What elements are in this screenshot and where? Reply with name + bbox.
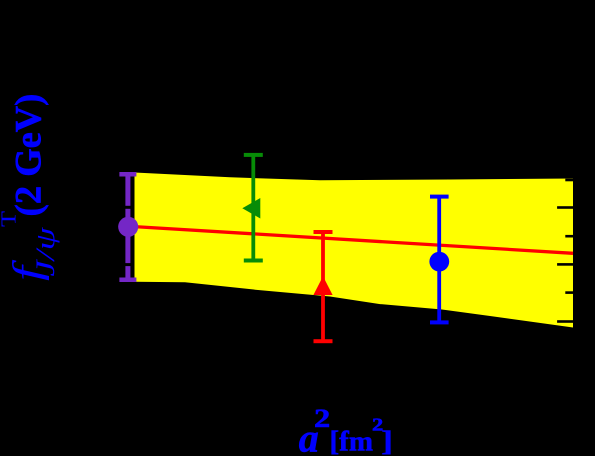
- green left-triangle symbol: [242, 198, 260, 219]
- svg-text:(2 GeV): (2 GeV): [8, 94, 49, 217]
- right axis major tick y=207.5: [557, 206, 573, 209]
- right axis major tick y=264.4: [557, 263, 573, 266]
- svg-text:[fm: [fm: [330, 426, 373, 456]
- yellow fit error band: [135, 173, 574, 328]
- svg-text:J/ψ: J/ψ: [31, 226, 60, 276]
- svg-text:]: ]: [381, 424, 393, 456]
- red error bar: [314, 230, 333, 343]
- right axis minor tick y=180: [565, 179, 573, 182]
- right axis minor tick y=236.2: [565, 235, 573, 238]
- red fit line: [135, 227, 574, 254]
- left axis tick dash over purple bar y=207.3: [124, 206, 131, 209]
- right axis major tick y=321.5: [557, 320, 573, 323]
- blue circle symbol: [429, 252, 449, 272]
- left axis tick dash over purple bar y=264.6: [124, 263, 131, 266]
- green error bar: [244, 153, 263, 263]
- y-axis label f^T_{J/psi} (2 GeV): [0, 94, 60, 281]
- blue error bar: [430, 195, 449, 325]
- purple error bar: [119, 172, 136, 282]
- right axis minor tick y=292.6: [565, 291, 573, 294]
- purple circle symbol (continuum point): [118, 217, 138, 237]
- red up-triangle symbol: [313, 276, 332, 295]
- x-axis label a^2 [fm^2]: [299, 405, 393, 456]
- svg-text:2: 2: [314, 405, 330, 433]
